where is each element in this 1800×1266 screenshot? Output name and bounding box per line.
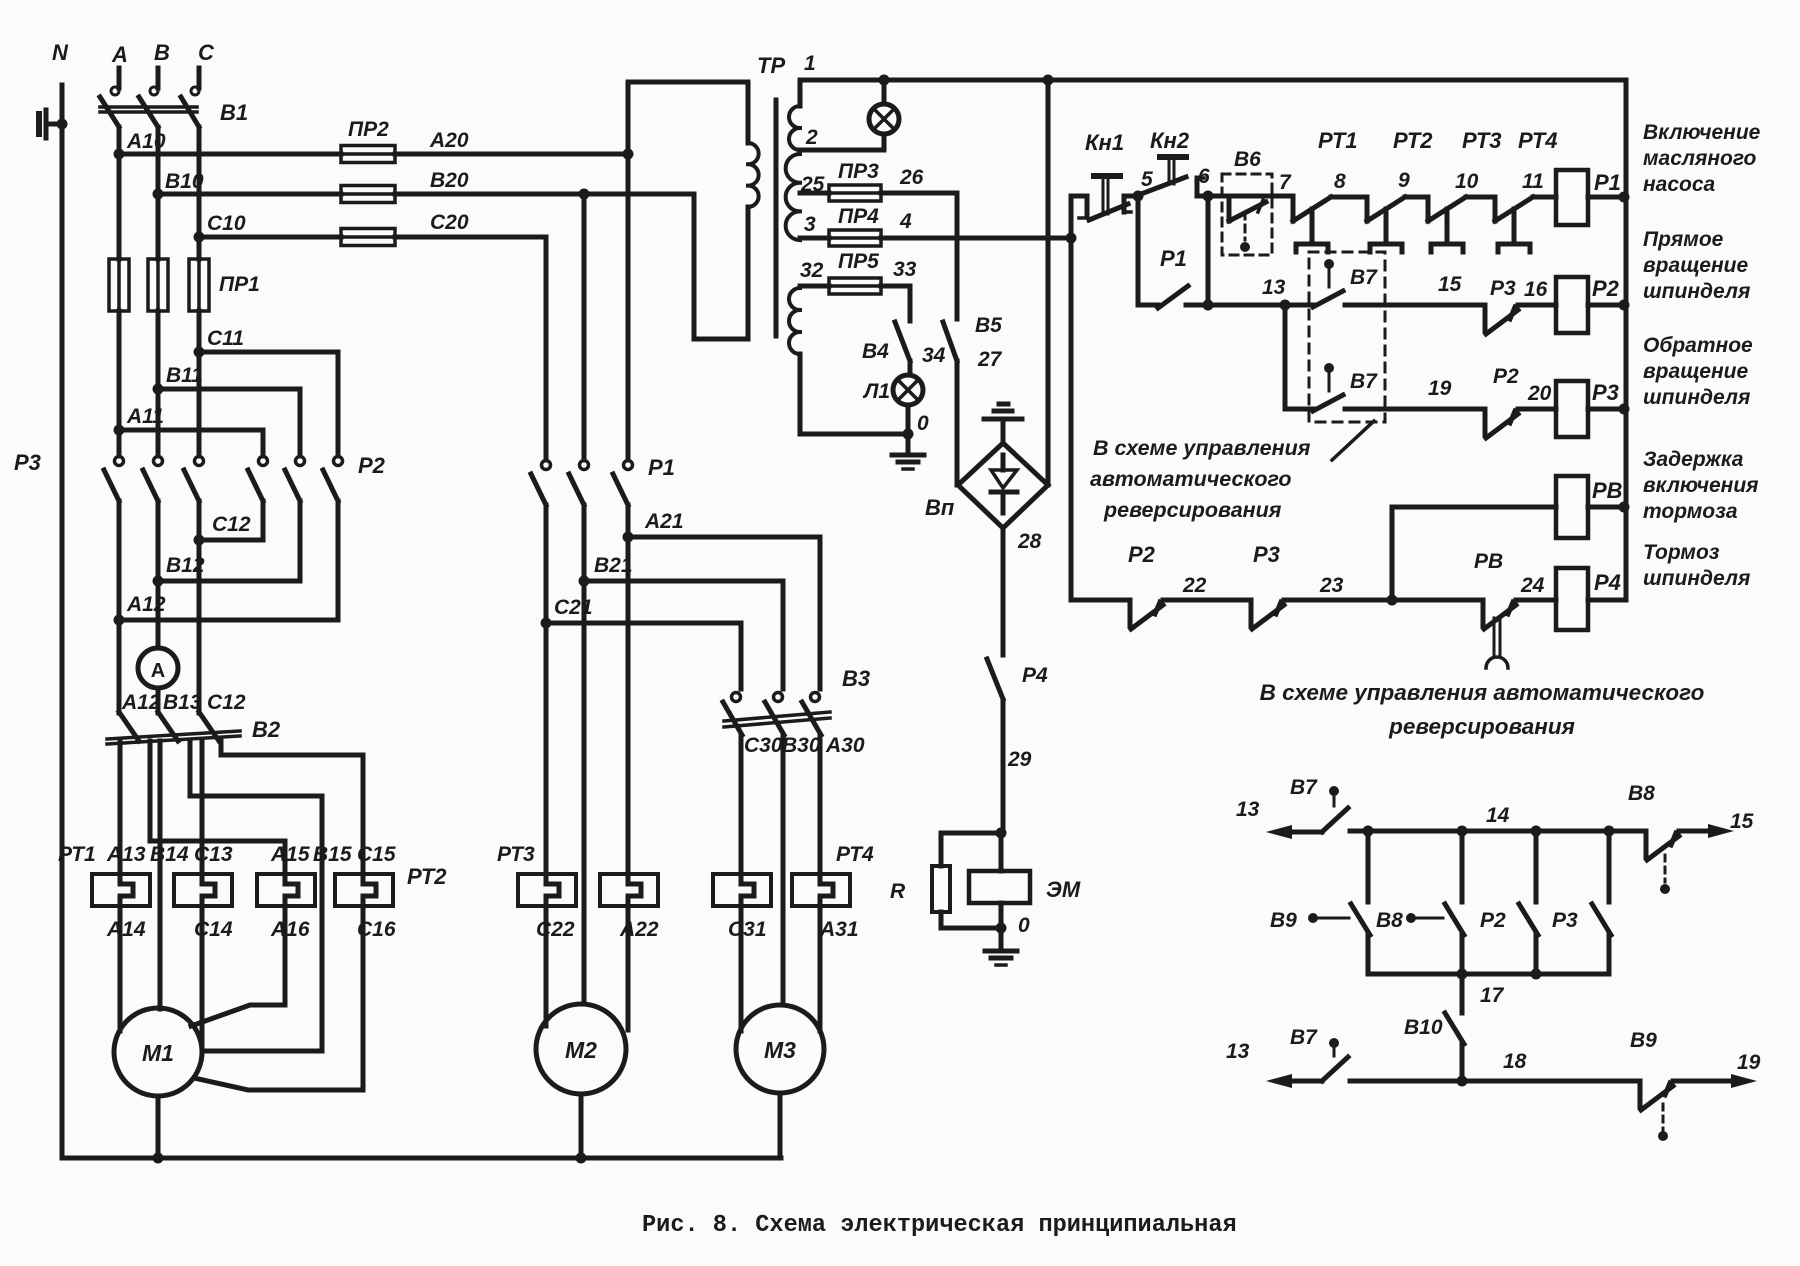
wire A13 leg [118, 741, 123, 874]
svg-text:С22: С22 [536, 918, 575, 941]
svg-text:РТ4: РТ4 [1518, 128, 1558, 153]
svg-text:Р3: Р3 [14, 450, 41, 475]
svg-text:В12: В12 [166, 554, 205, 577]
svg-text:В10: В10 [1404, 1016, 1443, 1039]
terminal B [156, 68, 161, 88]
svg-text:ПР1: ПР1 [219, 273, 260, 296]
junction PB branch [1387, 595, 1398, 606]
wire 16 [1518, 303, 1556, 308]
contactor P1 contact 3 [626, 456, 631, 460]
heater RT1-A [92, 874, 150, 906]
wire aux vert 1 [1366, 831, 1371, 902]
svg-text:РТ3: РТ3 [1462, 128, 1502, 153]
svg-text:Р2: Р2 [1480, 909, 1506, 932]
svg-text:М3: М3 [764, 1037, 796, 1063]
node 5 [1133, 191, 1144, 202]
svg-text:В5: В5 [975, 314, 1002, 337]
svg-text:15: 15 [1438, 273, 1462, 296]
switch B1 blade B [139, 97, 158, 127]
transformer TP winding 32-33 [789, 288, 800, 354]
contact P3 aux [1519, 904, 1538, 935]
wire 25 to PR3 [800, 191, 829, 196]
wire Kn1 feed [1069, 196, 1074, 600]
svg-text:27: 27 [977, 348, 1003, 371]
svg-text:Обратное: Обратное [1643, 334, 1753, 357]
switch B5 [943, 322, 957, 361]
wire B11 branch [158, 389, 300, 456]
contactor P3 contact C [197, 352, 202, 456]
wire 19 [1345, 407, 1485, 412]
junction aux1 f [1531, 969, 1542, 980]
svg-text:ПР4: ПР4 [838, 205, 879, 228]
net 15 arrow aux1 [1679, 829, 1708, 834]
node B21 [579, 576, 590, 587]
svg-text:шпинделя: шпинделя [1643, 386, 1750, 409]
terminal C [197, 68, 202, 88]
svg-text:В4: В4 [862, 340, 889, 363]
wire A15 leg [150, 741, 285, 874]
wire A20 left [119, 152, 341, 157]
transformer TP core [774, 100, 779, 336]
junction aux1 a [1363, 826, 1374, 837]
svg-text:А14: А14 [106, 918, 146, 941]
svg-text:14: 14 [1486, 804, 1510, 827]
electromagnet EM [999, 833, 1004, 871]
wire node6 drop [1206, 196, 1211, 305]
svg-text:Р3: Р3 [1253, 542, 1280, 567]
node A10 [114, 149, 125, 160]
wire N vertical [60, 85, 65, 1158]
wire 29 down [1001, 700, 1006, 833]
svg-text:А12: А12 [126, 593, 166, 616]
svg-text:вращение: вращение [1643, 254, 1748, 277]
switch B7 upper [1309, 303, 1313, 308]
wire A20 drop [626, 154, 631, 456]
contact 4 aux [1592, 904, 1611, 935]
node N terminal [36, 114, 42, 134]
svg-text:Включение: Включение [1643, 121, 1761, 144]
svg-text:А31: А31 [819, 918, 859, 941]
wire B4 to lamp [908, 361, 913, 375]
svg-text:ПР2: ПР2 [348, 118, 389, 141]
svg-text:ЭМ: ЭМ [1046, 877, 1081, 902]
switch B1 blade A [100, 97, 119, 127]
svg-text:С12: С12 [207, 691, 246, 714]
svg-text:В8: В8 [1376, 909, 1403, 932]
transformer TP winding 25-3 [786, 154, 800, 240]
switch B3 blade 1 [723, 702, 742, 735]
wire winding2 to lamp [800, 148, 884, 153]
svg-text:B: B [154, 40, 170, 65]
svg-text:32: 32 [800, 259, 824, 282]
contact P2 aux [1445, 904, 1464, 935]
svg-text:А30: А30 [825, 734, 865, 757]
wire C20 left [199, 235, 341, 240]
svg-text:А12: А12 [121, 691, 161, 714]
wire P1 coil to bus [1588, 195, 1626, 200]
svg-text:28: 28 [1017, 530, 1042, 553]
contactor P2 contact 3 [336, 454, 341, 459]
wire C30 down [739, 735, 744, 874]
contact P2 row4 [1128, 600, 1133, 626]
svg-text:автоматического: автоматического [1090, 467, 1292, 491]
wire P1-2 down [582, 505, 587, 1004]
wire phase A upper [117, 127, 122, 259]
node C12 [194, 535, 205, 546]
svg-text:С11: С11 [207, 327, 244, 350]
svg-text:В13: В13 [163, 691, 202, 714]
junction aux2 [1457, 1076, 1468, 1087]
wire R down [941, 912, 1000, 928]
wire B5 to bridge [955, 361, 960, 485]
svg-text:Р3: Р3 [1552, 909, 1578, 932]
svg-text:РТ1: РТ1 [1318, 128, 1358, 153]
node 4 junction [1066, 233, 1077, 244]
svg-text:29: 29 [1007, 748, 1032, 771]
wire below P3-C [197, 501, 202, 713]
wire below P3-B [156, 501, 161, 648]
wire A30 down [818, 735, 823, 874]
svg-text:0: 0 [917, 412, 929, 435]
switch B7 lower [1313, 395, 1343, 411]
svg-text:А: А [151, 660, 165, 682]
switch B1 blade C [181, 97, 199, 127]
wire 15 [1345, 303, 1485, 308]
svg-text:С21: С21 [554, 596, 593, 619]
svg-text:В схеме управления автоматичес: В схеме управления автоматического [1260, 680, 1705, 705]
svg-text:Р2: Р2 [1592, 276, 1620, 301]
svg-text:В8: В8 [1628, 782, 1655, 805]
node A20 junction [623, 149, 634, 160]
svg-text:8: 8 [1334, 170, 1346, 193]
wire P2 coil to bus [1588, 303, 1626, 308]
contactor P1 contact 1 [544, 456, 549, 460]
motor M3 [736, 1005, 824, 1093]
node C10 [194, 232, 205, 243]
pointer line to B7 box [1332, 421, 1374, 460]
switch B3 tie bars [724, 712, 830, 721]
heater RT3-C [518, 874, 576, 906]
node A11 [114, 425, 125, 436]
relay RT1 contact [1291, 197, 1296, 221]
transformer TP primary loop [628, 82, 748, 154]
svg-text:шпинделя: шпинделя [1643, 567, 1750, 590]
svg-text:Вп: Вп [925, 495, 955, 520]
junction M1 bus [153, 1153, 164, 1164]
wire C11 branch [199, 352, 338, 456]
svg-text:24: 24 [1520, 574, 1545, 597]
wire row2 a [1186, 303, 1309, 308]
wire B30 down [781, 735, 786, 1005]
wire C20 right [395, 235, 546, 240]
node 0 junction [903, 429, 914, 440]
wire EM down [999, 903, 1004, 928]
svg-text:В9: В9 [1630, 1029, 1657, 1052]
contact P1 selfhold [1138, 303, 1158, 308]
motor M2 [536, 1004, 626, 1094]
wire P3 coil to bus [1588, 407, 1626, 412]
relay coil PB [1556, 476, 1588, 538]
wire bottom bus [62, 1156, 781, 1161]
junction lamp bus [879, 75, 890, 86]
ground at lamp [906, 434, 911, 454]
svg-text:В2: В2 [252, 717, 281, 742]
switch B8 aux contact [1351, 904, 1370, 935]
svg-text:М2: М2 [565, 1037, 597, 1063]
contact P2 row3 [1483, 409, 1488, 435]
svg-text:шпинделя: шпинделя [1643, 280, 1750, 303]
svg-text:М1: М1 [142, 1040, 174, 1066]
wire 11 [1533, 195, 1556, 200]
switch B4 [895, 322, 910, 361]
motor M1 [114, 1008, 202, 1096]
wire A20 right [395, 152, 628, 157]
wire M2 to bus [579, 1094, 584, 1158]
svg-text:реверсирования: реверсирования [1388, 714, 1575, 739]
node C21 [541, 618, 552, 629]
contactor P1 contact 2 [582, 456, 587, 460]
svg-text:В7: В7 [1350, 370, 1378, 393]
heater RT2-C [335, 874, 393, 906]
svg-text:R: R [890, 880, 906, 903]
svg-text:С31: С31 [728, 918, 767, 941]
svg-text:включения: включения [1643, 474, 1759, 497]
wire B20 left [158, 192, 341, 197]
wire 13 drop [1283, 305, 1288, 409]
heater RT3-A [600, 874, 658, 906]
svg-text:Р1: Р1 [648, 455, 675, 480]
fuse PR2-A [341, 146, 395, 163]
svg-text:4: 4 [899, 210, 912, 233]
wire 32 to PR5 [800, 284, 829, 289]
svg-text:В7: В7 [1290, 1026, 1318, 1049]
svg-text:22: 22 [1182, 574, 1207, 597]
wire aux1 bottom [1368, 972, 1609, 977]
switch B3 terminal 3 [811, 693, 820, 702]
svg-text:0: 0 [1018, 914, 1030, 937]
wire phase A mid [117, 311, 122, 456]
lamp LS [869, 104, 899, 134]
svg-text:С10: С10 [207, 212, 246, 235]
svg-text:16: 16 [1524, 278, 1548, 301]
button Kn2 [1141, 177, 1186, 194]
wire P1-1 down [544, 505, 549, 874]
wire B12 link [158, 579, 300, 584]
wire below P2-1 [261, 501, 266, 540]
switch B2 blade C [199, 712, 219, 741]
fuse PR2-B [341, 186, 395, 203]
contact P3 row2 [1483, 305, 1488, 331]
wire 20 [1518, 407, 1556, 412]
svg-text:10: 10 [1455, 170, 1479, 193]
svg-text:В20: В20 [430, 169, 469, 192]
relay coil P3 [1556, 381, 1588, 437]
node B11 [153, 384, 164, 395]
svg-text:Р2: Р2 [358, 453, 386, 478]
svg-text:РТ3: РТ3 [497, 843, 535, 866]
svg-text:В10: В10 [165, 170, 204, 193]
svg-text:20: 20 [1527, 382, 1552, 405]
svg-text:насоса: насоса [1643, 173, 1716, 196]
svg-text:В30: В30 [782, 734, 821, 757]
svg-text:Р4: Р4 [1594, 570, 1621, 595]
wire 3 to PR4 [800, 236, 829, 241]
wire A31 to M3 [818, 906, 823, 1031]
svg-text:15: 15 [1730, 810, 1754, 833]
fuse PR1-C [189, 259, 209, 311]
net 19 arrow aux2 [1673, 1079, 1731, 1084]
wire 33 [881, 286, 910, 321]
svg-text:Р2: Р2 [1493, 365, 1519, 388]
svg-text:реверсирования: реверсирования [1103, 498, 1282, 522]
svg-text:масляного: масляного [1643, 147, 1757, 170]
wire C20 drop [544, 237, 549, 456]
junction node6 row2 [1203, 300, 1214, 311]
wire C21 link [546, 623, 741, 689]
node B10 [153, 189, 164, 200]
svg-text:В1: В1 [220, 100, 248, 125]
svg-text:Кн2: Кн2 [1150, 128, 1190, 153]
svg-text:A: A [111, 42, 128, 67]
wire 24 [1516, 598, 1556, 603]
resistor R [932, 866, 950, 912]
junction row1 bus [1619, 192, 1630, 203]
svg-text:Рис. 8. Схема электрическая пр: Рис. 8. Схема электрическая принципиальн… [642, 1212, 1237, 1239]
svg-text:РТ1: РТ1 [58, 843, 96, 866]
wire row3 a [1285, 407, 1313, 412]
svg-text:Р2: Р2 [1128, 542, 1156, 567]
node brake 0 [996, 923, 1007, 934]
wire 23b [1392, 598, 1483, 603]
svg-text:34: 34 [922, 344, 946, 367]
heater RT1-C [174, 874, 232, 906]
svg-text:С30: С30 [744, 734, 783, 757]
wire below P2-2 [298, 501, 303, 581]
junction aux1 e [1457, 969, 1468, 980]
node B20 junction [579, 189, 590, 200]
svg-text:Прямое: Прямое [1643, 228, 1724, 251]
wire C22 to M2 [544, 906, 549, 1026]
svg-text:РВ: РВ [1474, 550, 1503, 573]
wire B20 right [395, 192, 694, 197]
wire 23 [1284, 598, 1392, 603]
switch B3 blade 3 [802, 702, 821, 735]
wire below P2-3 [336, 501, 341, 620]
wire phase C upper [197, 127, 202, 259]
svg-text:С12: С12 [212, 513, 251, 536]
svg-text:Тормоз: Тормоз [1643, 541, 1720, 564]
svg-text:В6: В6 [1234, 148, 1261, 171]
wire A21 link [628, 537, 820, 689]
svg-text:В7: В7 [1350, 266, 1378, 289]
node A12 [114, 615, 125, 626]
switch B3 terminal 1 [732, 693, 741, 702]
switch B3 terminal 2 [774, 693, 783, 702]
transformer TP winding 1-2 [798, 83, 803, 106]
svg-text:1: 1 [804, 52, 816, 75]
svg-text:6: 6 [1198, 165, 1210, 188]
junction M2 bus [576, 1153, 587, 1164]
svg-text:17: 17 [1480, 984, 1505, 1007]
wire A14 to M1 [118, 906, 123, 1031]
button Kn1 [1085, 196, 1090, 217]
svg-text:7: 7 [1279, 171, 1292, 194]
svg-text:23: 23 [1319, 574, 1344, 597]
wire ammeter bottom [156, 688, 161, 713]
wire to R [941, 833, 1001, 866]
ground above bridge [999, 402, 1008, 407]
svg-text:19: 19 [1428, 377, 1452, 400]
svg-text:Р1: Р1 [1160, 246, 1187, 271]
contactor P3 contact A [117, 430, 122, 456]
wire C12 link [199, 538, 263, 543]
wire 4 [881, 236, 1071, 241]
svg-text:В9: В9 [1270, 909, 1297, 932]
svg-text:С13: С13 [194, 843, 233, 866]
rectifier Vp bridge [958, 443, 1048, 528]
fuse PR1-B [148, 259, 168, 311]
wire B15 leg [190, 741, 322, 1051]
svg-text:Л1: Л1 [862, 380, 890, 403]
heater RT4-C [713, 874, 771, 906]
junction row3 bus [1619, 404, 1630, 415]
svg-text:РВ: РВ [1592, 478, 1623, 503]
fuse PR1-A [109, 259, 129, 311]
svg-text:РТ4: РТ4 [836, 843, 874, 866]
svg-text:2: 2 [805, 126, 818, 149]
wire bridge right up [1046, 80, 1051, 485]
wire 22 [1163, 598, 1251, 603]
wire A22 to M2 [626, 906, 631, 1030]
wire M3 to bus [778, 1093, 783, 1158]
svg-text:А10: А10 [126, 130, 166, 153]
wire aux vert 3 [1534, 831, 1539, 902]
svg-text:26: 26 [899, 166, 924, 189]
wire A16 to M1 [191, 906, 285, 1026]
svg-text:Р1: Р1 [1594, 170, 1621, 195]
svg-text:В21: В21 [594, 554, 633, 577]
svg-text:А20: А20 [429, 129, 469, 152]
wire M1 to bus [156, 1096, 161, 1158]
svg-text:Р3: Р3 [1490, 277, 1516, 300]
switch B1 tie bars [100, 105, 197, 109]
wire phase B upper [156, 127, 161, 259]
relay coil P4 [1556, 568, 1588, 630]
wire B14 leg [158, 741, 163, 1009]
wire P1-3 down [626, 505, 631, 874]
svg-text:А13: А13 [106, 843, 146, 866]
wire 9 [1405, 195, 1428, 200]
switch B2 blade B [158, 712, 178, 741]
wire aux vert 2 [1460, 831, 1465, 902]
wire C16 to M1 [194, 906, 363, 1090]
ground brake [999, 928, 1004, 950]
wire PB branch [1392, 507, 1556, 600]
wire lamp L1 down [906, 405, 911, 434]
relay RT3 contact [1426, 197, 1431, 221]
wire P4 coil to bus [1588, 598, 1626, 603]
svg-text:C: C [198, 40, 215, 65]
wire aux2 [1350, 1079, 1640, 1084]
svg-text:ТР: ТР [757, 53, 785, 78]
wire 8 [1331, 195, 1367, 200]
node 6 [1203, 191, 1214, 202]
svg-text:В7: В7 [1290, 776, 1318, 799]
fuse PR2-C [341, 229, 395, 246]
ammeter A [138, 648, 178, 688]
switch B10 [1460, 974, 1465, 1013]
svg-text:ПР3: ПР3 [838, 160, 879, 183]
